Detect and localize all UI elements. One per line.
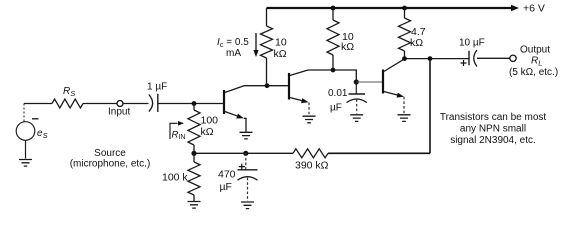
svg-text:Input: Input [108,107,130,118]
transistor Q1 base bar [223,90,225,114]
node: Input terminal (open circle) [117,101,123,107]
svg-text:µF: µF [220,181,232,193]
node: Output terminal (open circle) [510,55,516,61]
svg-text:10: 10 [275,37,287,49]
ground: Q3 emitter [398,115,411,122]
resistor RS (horizontal) [52,99,83,108]
capacitor C3 470uF bypass [245,153,247,169]
wire: C1 to Q1 base node [158,103,223,105]
wire: Q2 collector to bend [308,70,356,82]
resistor R1 10k (collector load Q1) [261,8,273,86]
node: junction dot Q2 collector / R2 [331,68,336,73]
transistor Q2 collector lead [290,70,308,76]
node: junction dot 470uF tap [243,151,248,156]
svg-text:(5 kΩ, etc.): (5 kΩ, etc.) [509,67,558,78]
svg-text:any NPN small: any NPN small [460,124,526,135]
label RIN with arrow bracket [170,123,178,139]
wire: Q1 emitter to ground [244,118,246,132]
svg-text:0.01: 0.01 [328,88,348,99]
transistor Q3 emitter lead with arrow [384,92,401,97]
svg-text:Output: Output [520,45,550,56]
transistor Q2 emitter lead with arrow [290,98,306,102]
resistor R3 4.7k (collector load Q3) [399,8,411,59]
svg-text:signal 2N3904, etc.: signal 2N3904, etc. [450,135,536,146]
svg-text:µF: µF [330,103,342,114]
svg-text:kΩ: kΩ [274,48,287,60]
label plus sign C4 [461,60,467,66]
wire: input terminal to C1 [123,103,149,105]
arrowhead on +6V rail [511,5,519,11]
wire: input line from source corner to Rs [24,103,52,105]
resistor R5 100k to ground [188,153,200,201]
resistor R6 390k feedback [293,149,328,158]
capacitor C1 1uF (curved plate) [149,95,153,112]
ground: C2 [350,115,363,122]
current annotation Ic = 0.5 mA with down arrow [255,33,257,52]
node: rail junction dot R2 [331,6,336,11]
svg-text:mA: mA [226,48,241,59]
wire: Q1 collector to Q2 base [244,85,288,87]
wire: feedback right vertical [429,59,431,154]
transistor Q1 collector lead [225,86,244,93]
ground: below source [19,160,32,167]
wire: +6V top supply rail [267,7,513,9]
resistor R2 10k (collector load Q2) [327,8,339,70]
wire: Rs to input terminal [83,103,117,105]
node: junction dot Q3 collector [402,56,407,61]
svg-text:Source: Source [94,148,126,159]
wire: C4 to output terminal [477,57,510,59]
svg-text:100: 100 [201,115,219,127]
transistor Q1 emitter lead with arrow [225,112,241,118]
wire: source bottom lead [25,140,27,158]
svg-text:kΩ: kΩ [201,126,214,138]
capacitor C4 10uF output coupling [468,51,470,65]
svg-text:kΩ: kΩ [410,37,423,49]
svg-text:+6 V: +6 V [523,3,545,15]
node: rail junction dot R3 [402,6,407,11]
node: junction dot lower node [191,151,196,156]
svg-text:10 µF: 10 µF [459,38,485,49]
transistor Q3 collector lead [384,59,404,71]
wire: output node [405,58,469,60]
node: junction dot feedback tap [428,56,433,61]
svg-text:(microphone, etc.): (microphone, etc.) [70,159,151,170]
transistor Q2 base bar [288,73,290,100]
node: junction dot base node [192,101,197,106]
source generator eS (circle) [16,122,35,141]
label plus sign C3 [239,164,245,170]
wire: feedback bottom to 390k [328,152,430,154]
wire: Q3 emitter to ground [403,97,405,114]
transistor Q3 base bar [382,70,384,94]
svg-text:390 kΩ: 390 kΩ [295,160,329,172]
svg-text:Transistors can be most: Transistors can be most [440,112,547,123]
minus sign above source [32,118,39,120]
wire: Q2 emitter to ground (dashed) [308,103,310,116]
svg-text:kΩ: kΩ [341,41,354,53]
node: junction dot Q3 base / C2 [354,79,359,84]
ground: R5 [188,202,201,209]
ground: Q1 emitter [240,132,253,139]
svg-text:100 k: 100 k [162,172,188,184]
wire: 390k to lower node [194,152,293,154]
svg-text:1 µF: 1 µF [147,82,167,93]
svg-text:470: 470 [218,169,236,181]
ground: C3 [241,202,254,209]
wire: source top lead (dotted) [23,104,25,122]
capacitor C2 0.01uF to ground [355,82,357,94]
node: junction dot Q1 collector [265,83,270,88]
wire: node to Q3 base [356,81,382,83]
resistor R4 100k (Rin, base bias) [188,104,200,154]
ground: Q2 emitter [303,116,316,123]
